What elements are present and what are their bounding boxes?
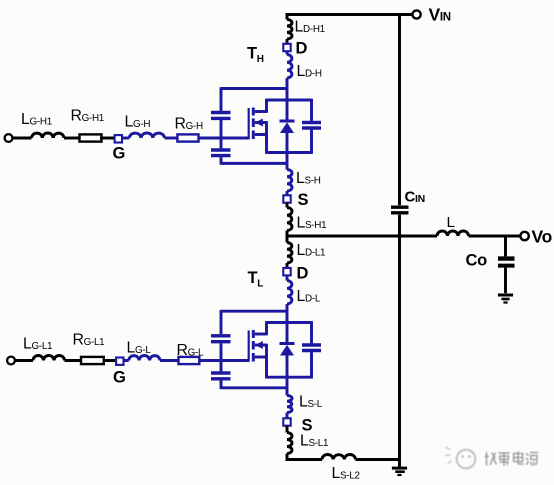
ground Co	[498, 295, 513, 303]
label S	[298, 191, 309, 209]
label L	[447, 214, 455, 231]
inductor LG-L1	[33, 356, 65, 361]
inductor LS-L1	[287, 433, 292, 454]
svg-text:S: S	[298, 191, 309, 209]
resistor RG-L	[179, 357, 200, 364]
resistor RG-L1	[81, 357, 104, 364]
drain stub TH	[255, 99, 267, 113]
terminal Vo	[520, 232, 528, 240]
wire	[104, 359, 116, 362]
inductor LD-L1	[287, 243, 292, 264]
node G (TL gate)	[116, 358, 123, 365]
label LG-H1	[21, 111, 53, 128]
body stub TH	[255, 119, 267, 135]
capacitor TL Cgs	[211, 373, 231, 379]
wire	[165, 137, 178, 140]
inductor L output	[437, 231, 469, 236]
label LS-L1	[300, 433, 329, 450]
label G	[113, 369, 126, 387]
label CIN	[405, 189, 425, 206]
wire switch node	[286, 234, 438, 237]
label LG-H	[125, 114, 151, 131]
svg-text:G: G	[113, 145, 126, 163]
inductor LG-L	[129, 355, 160, 360]
gate bar TL	[248, 331, 250, 362]
wire TH source	[286, 163, 289, 169]
capacitor TH Cds	[302, 99, 321, 154]
svg-text:Vo: Vo	[532, 227, 552, 247]
label LS-H1	[297, 215, 328, 232]
label TL	[248, 269, 264, 290]
wire TL source	[286, 388, 289, 396]
wire	[356, 458, 401, 461]
node S (TH source)	[283, 195, 290, 202]
svg-text:L: L	[447, 214, 455, 231]
resistor RG-H1	[80, 134, 102, 141]
svg-text:D: D	[296, 40, 308, 58]
wire	[64, 137, 80, 140]
wire TH outer box bottom	[221, 162, 287, 165]
wire	[286, 39, 289, 44]
drain stub TL	[255, 321, 267, 335]
capacitor Co	[498, 259, 515, 266]
node S (TL source)	[283, 418, 290, 425]
wire	[100, 137, 115, 140]
wire	[122, 137, 129, 140]
wire	[12, 137, 31, 140]
wire TL source	[286, 377, 289, 388]
label LD-H	[297, 63, 322, 80]
terminal VIN	[413, 10, 421, 18]
ground main	[392, 460, 407, 476]
wire	[286, 263, 289, 268]
label D	[296, 40, 308, 58]
label TH	[247, 45, 264, 66]
label LD-L1	[297, 242, 327, 259]
label LG-L	[127, 340, 152, 357]
terminal gate H	[5, 134, 13, 142]
label Co	[466, 252, 488, 270]
label RG-H	[175, 116, 203, 133]
label LS-L2	[332, 465, 360, 482]
inductor LD-H	[287, 51, 292, 78]
node D (TL drain)	[283, 268, 290, 275]
gate bar TH	[248, 108, 250, 139]
wire	[286, 203, 289, 208]
inductor LS-L	[287, 396, 292, 413]
channel bar TL	[252, 330, 255, 362]
wire TL inner box top	[267, 321, 312, 324]
label RG-L	[177, 342, 204, 359]
inductor LG-H1	[32, 133, 65, 138]
label D	[297, 265, 309, 283]
inductor LG-H	[129, 133, 164, 138]
wire	[286, 231, 289, 237]
wire TH gate	[199, 137, 249, 140]
label VIN	[429, 5, 451, 25]
wire TL outer box bottom	[221, 386, 287, 389]
label Vo	[532, 227, 552, 247]
label S	[302, 417, 313, 435]
wire TH drain	[286, 78, 289, 100]
wire	[504, 268, 507, 294]
wire TH left branch	[220, 87, 223, 165]
watermark	[445, 447, 538, 468]
wire TL inner box bottom	[267, 376, 312, 379]
capacitor TH Cgs	[211, 150, 231, 156]
wire TH inner box top	[267, 99, 312, 102]
label RG-H1	[71, 108, 105, 125]
source stub TL	[255, 357, 267, 379]
inductor LD-H1	[287, 20, 292, 40]
wire TH inner box bottom	[267, 151, 312, 154]
svg-text:D: D	[297, 265, 309, 283]
wire VIN top rail	[286, 13, 413, 19]
node D (TH drain)	[283, 44, 290, 51]
capacitor CIN	[391, 207, 409, 213]
wire TL left branch	[220, 310, 223, 389]
label LD-H1	[295, 19, 326, 36]
wire TH outer box top	[221, 87, 287, 90]
capacitor TL Cgd	[211, 336, 231, 342]
wire CIN rail bottom	[398, 215, 401, 460]
svg-text:G: G	[113, 369, 126, 387]
source stub TH	[255, 135, 267, 154]
wire	[286, 275, 289, 280]
label RG-L1	[73, 332, 106, 349]
wire	[15, 359, 33, 362]
wire TL outer box top	[221, 310, 287, 313]
label LS-L	[299, 394, 323, 411]
capacitor TH Cgd	[211, 113, 231, 119]
capacitor TL Cds	[302, 321, 321, 378]
label LD-L	[297, 288, 321, 305]
body diode TH	[280, 100, 295, 153]
terminal gate L	[7, 357, 15, 365]
channel bar TH	[252, 108, 255, 140]
body stub TL	[255, 341, 267, 357]
node G (TH gate)	[115, 135, 122, 142]
inductor LS-H	[287, 170, 292, 192]
wire	[469, 235, 521, 238]
wire	[286, 191, 289, 196]
body diode TL	[280, 323, 295, 378]
wire	[286, 304, 289, 323]
wire Co branch	[504, 236, 507, 256]
label LG-L1	[23, 336, 53, 353]
wire	[286, 413, 289, 419]
wire bottom	[287, 454, 322, 460]
inductor LD-L	[287, 281, 292, 305]
wire	[65, 359, 82, 362]
wire	[286, 426, 289, 433]
wire TL drain	[286, 236, 289, 243]
wire CIN rail top	[398, 13, 401, 205]
inductor LS-L2	[322, 454, 356, 459]
svg-text:Co: Co	[466, 252, 488, 270]
label LS-H	[296, 170, 321, 187]
wire TL gate	[199, 359, 249, 362]
inductor LS-H1	[287, 208, 292, 231]
label G	[113, 145, 126, 163]
resistor RG-H	[177, 134, 198, 141]
wire TH source	[286, 153, 289, 164]
wire	[124, 359, 129, 362]
wire	[160, 359, 179, 362]
